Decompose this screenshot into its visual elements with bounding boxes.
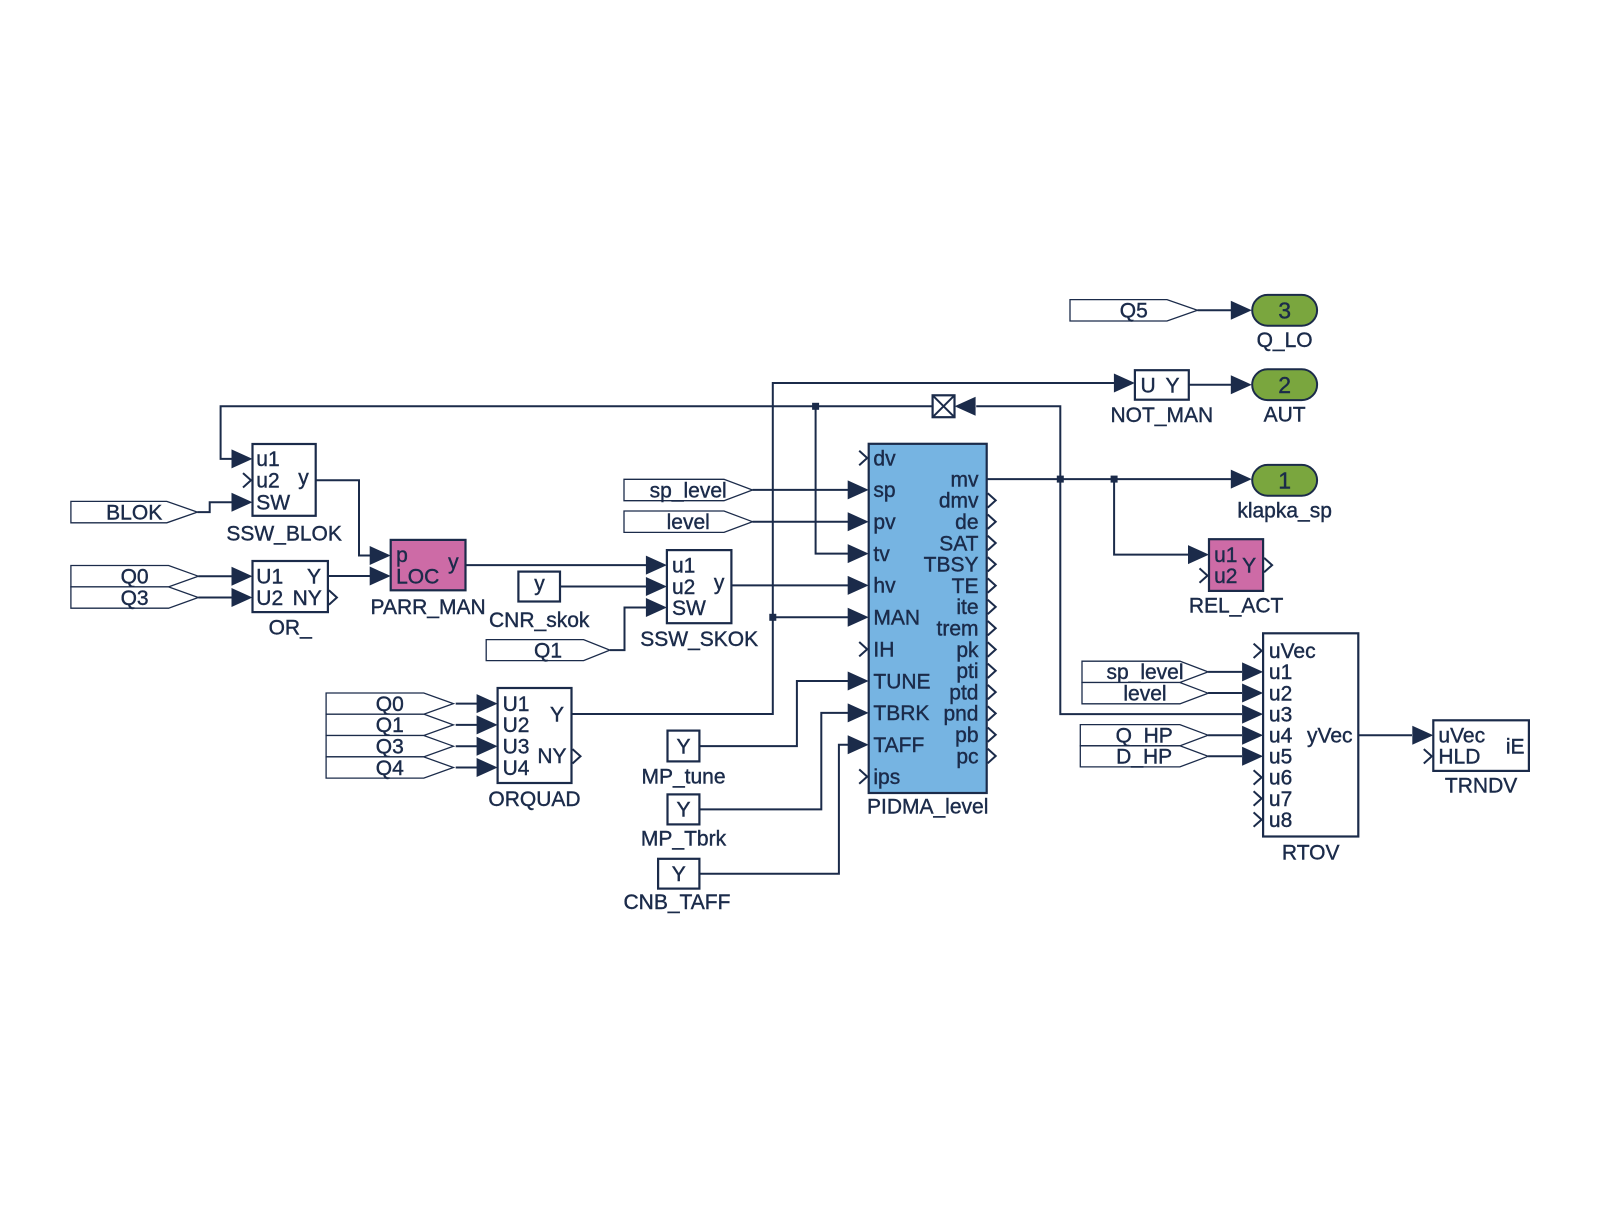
svg-text:U2: U2 [503, 714, 530, 737]
svg-text:REL_ACT: REL_ACT [1189, 594, 1284, 617]
svg-text:TRNDV: TRNDV [1445, 774, 1517, 797]
svg-text:u2: u2 [1269, 682, 1292, 705]
svg-text:p: p [396, 544, 408, 567]
svg-text:Q4: Q4 [376, 757, 404, 780]
svg-text:hv: hv [873, 575, 896, 598]
svg-text:TBRK: TBRK [873, 702, 929, 725]
svg-text:2: 2 [1278, 372, 1291, 398]
svg-text:SSW_BLOK: SSW_BLOK [226, 523, 342, 546]
svg-text:u8: u8 [1269, 809, 1292, 832]
svg-text:TBSY: TBSY [924, 554, 979, 577]
svg-text:u2: u2 [672, 576, 695, 599]
svg-text:level: level [667, 511, 710, 534]
svg-text:sp_level: sp_level [650, 479, 727, 502]
svg-text:ite: ite [956, 596, 978, 619]
svg-text:y: y [534, 573, 545, 596]
svg-text:MP_tune: MP_tune [641, 765, 725, 788]
svg-text:Y: Y [676, 735, 690, 758]
svg-text:tv: tv [873, 543, 890, 566]
svg-text:klapka_sp: klapka_sp [1237, 499, 1332, 522]
svg-text:SW: SW [256, 492, 290, 515]
svg-text:u1: u1 [1214, 544, 1237, 567]
svg-text:Q_LO: Q_LO [1257, 329, 1313, 352]
svg-text:u1: u1 [672, 554, 695, 577]
svg-text:Q0: Q0 [376, 693, 404, 716]
svg-text:HLD: HLD [1438, 746, 1480, 769]
svg-text:PIDMA_level: PIDMA_level [867, 796, 988, 819]
svg-text:u5: u5 [1269, 746, 1292, 769]
svg-text:Q1: Q1 [534, 639, 562, 662]
svg-text:MAN: MAN [873, 607, 920, 630]
svg-text:Q5: Q5 [1120, 300, 1148, 323]
svg-text:Y: Y [307, 566, 321, 589]
svg-text:pv: pv [873, 511, 896, 534]
svg-text:Q0: Q0 [121, 566, 149, 589]
svg-text:U2: U2 [256, 587, 283, 610]
svg-text:u3: u3 [1269, 703, 1292, 726]
svg-text:trem: trem [937, 618, 979, 641]
svg-text:NY: NY [537, 745, 566, 768]
svg-text:U: U [1141, 374, 1156, 397]
svg-text:y: y [714, 571, 725, 594]
svg-text:CNR_skok: CNR_skok [489, 609, 590, 632]
svg-text:u4: u4 [1269, 725, 1293, 748]
svg-text:Y: Y [550, 703, 564, 726]
svg-text:SAT: SAT [939, 532, 978, 555]
svg-text:dv: dv [873, 447, 896, 470]
svg-text:iE: iE [1506, 735, 1525, 758]
svg-text:SW: SW [672, 597, 706, 620]
svg-text:y: y [448, 551, 459, 574]
svg-text:NOT_MAN: NOT_MAN [1110, 404, 1213, 427]
svg-text:LOC: LOC [396, 565, 439, 588]
svg-text:IH: IH [873, 639, 894, 662]
svg-text:AUT: AUT [1264, 404, 1306, 427]
svg-text:pnd: pnd [943, 703, 978, 726]
svg-text:Y: Y [672, 863, 686, 886]
svg-text:NY: NY [293, 587, 322, 610]
svg-text:Y: Y [1242, 554, 1256, 577]
svg-text:D_HP: D_HP [1116, 746, 1172, 769]
svg-text:u1: u1 [256, 448, 279, 471]
svg-text:uVec: uVec [1438, 725, 1485, 748]
svg-text:OR_: OR_ [269, 616, 313, 639]
svg-text:Q_HP: Q_HP [1116, 725, 1173, 748]
svg-text:u2: u2 [256, 470, 279, 493]
svg-text:sp: sp [873, 479, 895, 502]
svg-text:pti: pti [956, 660, 978, 683]
svg-text:pb: pb [955, 724, 978, 747]
svg-text:TAFF: TAFF [873, 734, 924, 757]
svg-text:de: de [955, 511, 978, 534]
svg-text:TUNE: TUNE [873, 670, 930, 693]
svg-text:PARR_MAN: PARR_MAN [371, 596, 486, 619]
svg-text:U1: U1 [503, 693, 530, 716]
svg-text:sp_level: sp_level [1106, 661, 1183, 684]
svg-text:BLOK: BLOK [106, 501, 162, 524]
svg-text:Q3: Q3 [376, 736, 404, 759]
svg-text:u2: u2 [1214, 565, 1237, 588]
svg-text:mv: mv [951, 468, 979, 491]
svg-text:CNB_TAFF: CNB_TAFF [624, 891, 731, 914]
svg-text:pc: pc [956, 745, 978, 768]
svg-text:dmv: dmv [939, 490, 979, 513]
svg-text:RTOV: RTOV [1282, 841, 1340, 864]
svg-text:U4: U4 [503, 757, 530, 780]
svg-text:SSW_SKOK: SSW_SKOK [640, 628, 758, 651]
svg-text:3: 3 [1278, 298, 1291, 324]
svg-text:uVec: uVec [1269, 640, 1316, 663]
svg-text:u7: u7 [1269, 788, 1292, 811]
svg-text:Y: Y [1165, 374, 1179, 397]
svg-text:Q1: Q1 [376, 714, 404, 737]
svg-text:level: level [1123, 683, 1166, 706]
svg-text:U1: U1 [256, 566, 283, 589]
svg-text:pk: pk [956, 639, 979, 662]
svg-text:ips: ips [873, 766, 900, 789]
svg-text:TE: TE [952, 575, 979, 598]
svg-text:u1: u1 [1269, 661, 1292, 684]
svg-text:1: 1 [1278, 468, 1291, 494]
svg-text:U3: U3 [503, 736, 530, 759]
svg-text:Y: Y [676, 799, 690, 822]
svg-text:y: y [298, 466, 309, 489]
svg-text:MP_Tbrk: MP_Tbrk [641, 827, 727, 850]
svg-text:Q3: Q3 [121, 587, 149, 610]
svg-text:u6: u6 [1269, 767, 1292, 790]
svg-text:yVec: yVec [1307, 725, 1353, 748]
svg-text:ORQUAD: ORQUAD [488, 788, 580, 811]
svg-text:ptd: ptd [949, 681, 978, 704]
